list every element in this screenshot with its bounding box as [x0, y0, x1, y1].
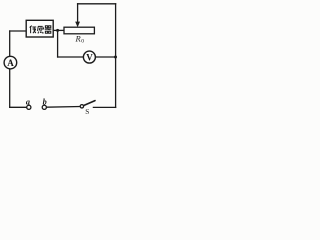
voltmeter V: [83, 51, 95, 63]
wire terminal b to switch: [46, 106, 80, 109]
rheostat R0 body: [64, 27, 94, 34]
terminal b: [42, 105, 46, 109]
junction dot (right rail/voltmeter node): [114, 56, 117, 59]
slider arrowhead: [75, 22, 80, 28]
sensor box: [26, 20, 53, 37]
wire left vertical lower (ammeter to bottom): [9, 69, 11, 107]
wire junction down: [57, 30, 59, 57]
sensor text 传感器 (drawn strokes): [30, 26, 52, 34]
svg-text:b: b: [43, 98, 47, 107]
ammeter A: [4, 56, 17, 69]
wire slider arrow shaft: [77, 4, 79, 23]
wire junction to voltmeter: [58, 56, 84, 58]
wire top horizontal: [78, 3, 116, 5]
wire bottom-right segment: [93, 106, 115, 108]
wire left vertical upper (to ammeter): [9, 31, 11, 56]
switch S pivot: [80, 105, 83, 108]
terminal a: [27, 105, 31, 109]
switch S blade: [84, 101, 95, 106]
svg-text:0: 0: [81, 39, 84, 45]
wire bottom-left segment: [10, 106, 27, 108]
wire sensor to rheostat: [53, 29, 64, 31]
svg-text:S: S: [85, 108, 89, 116]
svg-text:a: a: [26, 98, 30, 107]
wire sensor left lead: [10, 30, 27, 32]
svg-text:A: A: [7, 58, 14, 68]
junction dot (sensor/R0 node): [56, 29, 59, 32]
svg-text:V: V: [86, 52, 93, 62]
wire right vertical: [115, 4, 117, 108]
wire voltmeter to right rail: [95, 56, 115, 58]
